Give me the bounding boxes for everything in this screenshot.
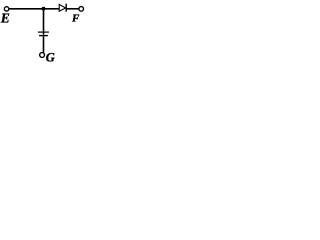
svg-text:F: F [71,13,80,25]
svg-text:E: E [0,11,10,26]
svg-text:G: G [46,51,55,64]
